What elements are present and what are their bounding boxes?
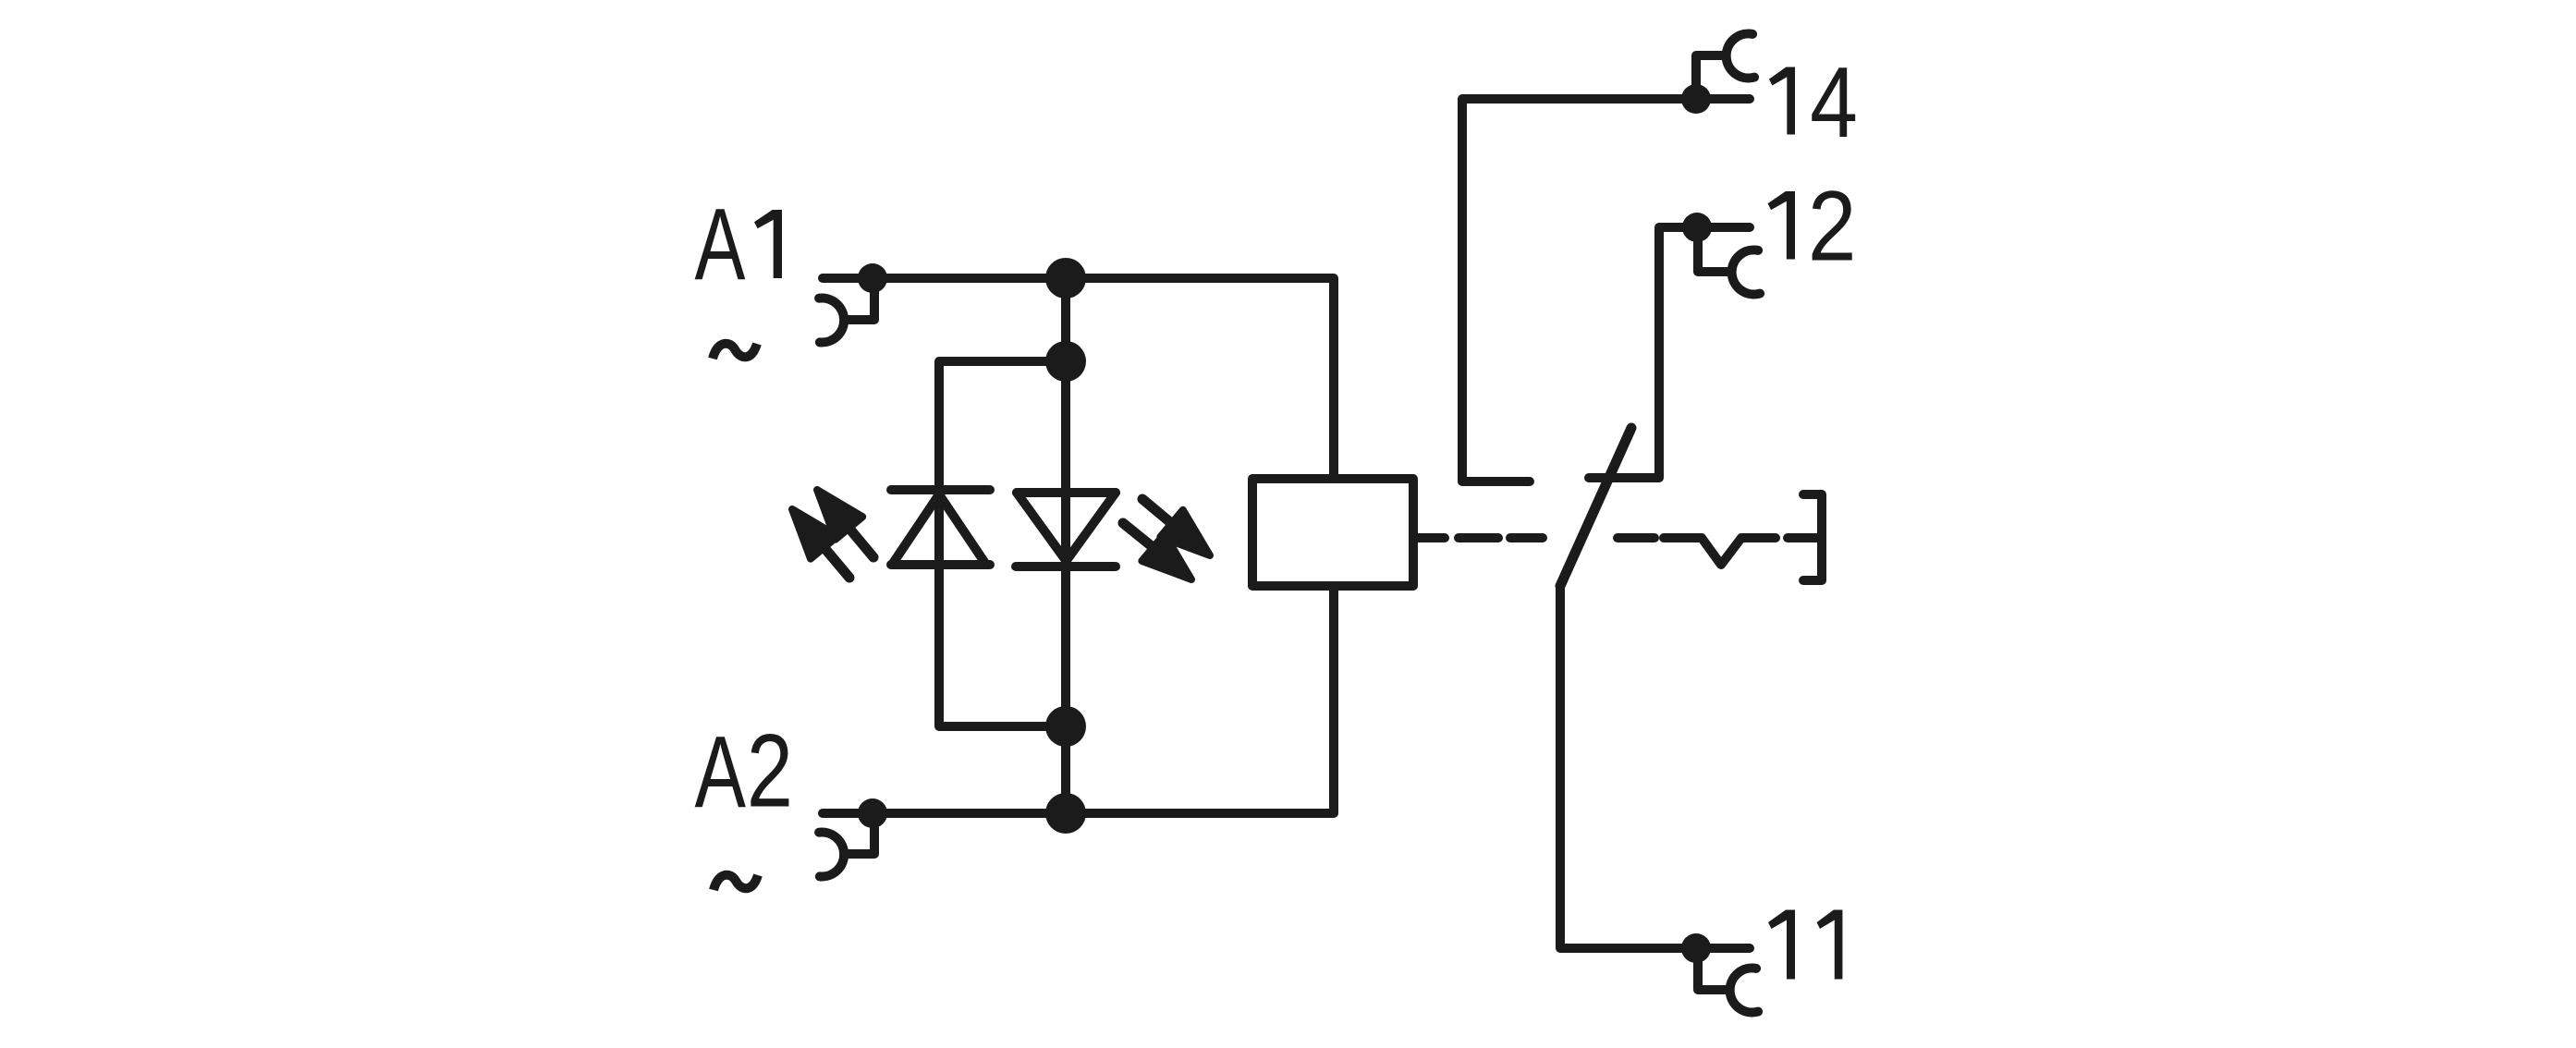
terminal dot A2 bbox=[858, 798, 887, 828]
terminal 12 label bbox=[1768, 171, 1857, 282]
wire A1 horizontal to coil top corner, down to coil bbox=[823, 278, 1334, 477]
terminal dot 12 bbox=[1682, 213, 1712, 242]
terminal dot 11 bbox=[1681, 933, 1711, 963]
clamp symbol 14 bbox=[1696, 33, 1754, 95]
clamp symbol A2 bbox=[819, 817, 874, 877]
svg-text:2: 2 bbox=[1808, 171, 1857, 282]
latch notch bbox=[1664, 538, 1776, 565]
LED D2 light arrow 2 bbox=[1123, 523, 1191, 579]
svg-text:A: A bbox=[695, 187, 746, 300]
mechanical linkage dashed line from coil bbox=[1418, 538, 1817, 565]
common contact 11: wire from blade pivot down and right to terminal bbox=[1560, 586, 1750, 948]
wire branch to left LED bbox=[939, 361, 1066, 490]
terminal A1 label bbox=[695, 187, 782, 300]
terminal dot 14 bbox=[1681, 84, 1711, 114]
NO contact 14: wire from terminal down to contact tip bbox=[1462, 99, 1750, 481]
wire A2 horizontal to coil bottom corner, up to coil bbox=[823, 588, 1334, 813]
LED D1 light arrow 1 bbox=[817, 490, 873, 557]
terminal 14 label bbox=[1769, 46, 1858, 158]
svg-text:2: 2 bbox=[747, 713, 793, 829]
clamp symbol A1 bbox=[819, 282, 874, 343]
terminal dot A1 bbox=[858, 263, 887, 293]
NC contact 12: wire from terminal down to contact bar bbox=[1589, 227, 1750, 478]
junction dot J3 bbox=[1045, 706, 1086, 747]
LED D1 (left, cathode up) bbox=[891, 490, 990, 565]
wire left LED vertical down to bottom branch bbox=[939, 490, 1066, 726]
clamp symbol 12 bbox=[1698, 231, 1760, 294]
mechanical stop bracket bbox=[1803, 494, 1822, 580]
LED D1 light arrow 2 bbox=[792, 509, 849, 578]
junction dot J2 bbox=[1045, 341, 1086, 382]
junction dot J1 bbox=[1045, 258, 1086, 299]
AC symbol ~ under A1 bbox=[713, 344, 757, 359]
terminal 11 label bbox=[1768, 910, 1842, 980]
AC symbol ~ under A2 bbox=[714, 875, 758, 890]
LED D2 (right, cathode down) bbox=[1016, 493, 1116, 567]
LED D2 light arrow 1 bbox=[1142, 499, 1210, 555]
junction dot J4 bbox=[1045, 793, 1086, 834]
svg-text:4: 4 bbox=[1810, 46, 1858, 158]
terminal A2 label bbox=[695, 713, 793, 829]
switch blade (movable contact) bbox=[1560, 428, 1631, 586]
wire right LED vertical bbox=[1061, 361, 1070, 813]
wire junction column: J1 to J2 bbox=[1061, 278, 1070, 361]
relay coil K1 bbox=[1252, 479, 1413, 586]
svg-text:A: A bbox=[695, 715, 747, 829]
clamp symbol 11 bbox=[1698, 952, 1758, 1012]
